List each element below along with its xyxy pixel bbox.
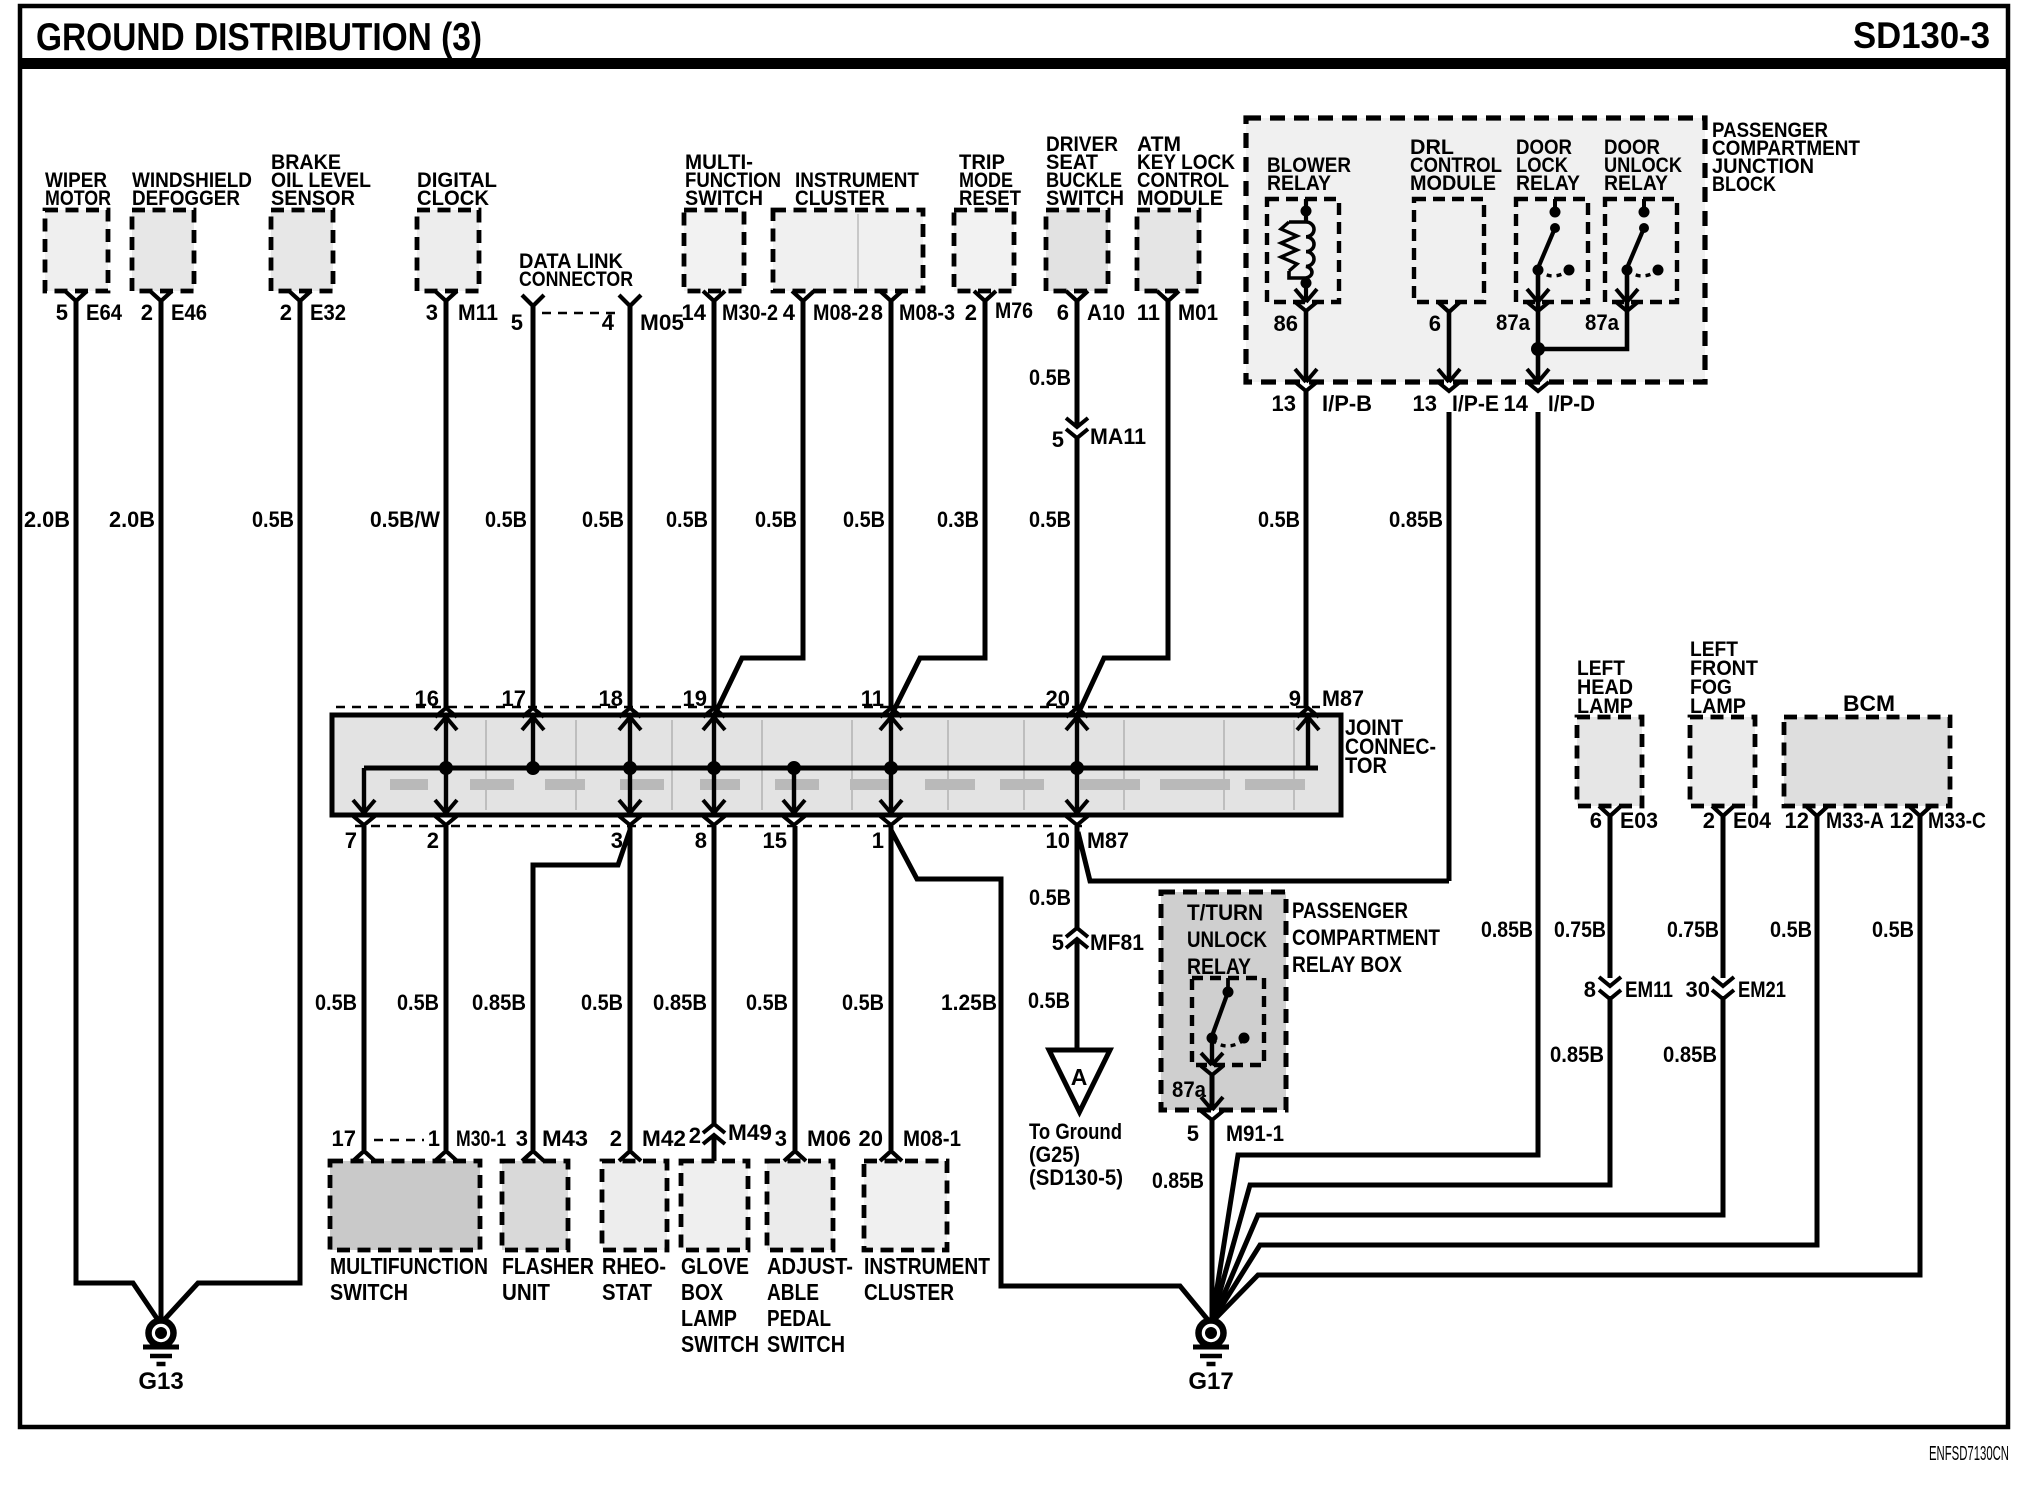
data link connector symbol pins 5 and 4 M05 — [522, 295, 544, 306]
joint connector bus wire — [364, 766, 1318, 771]
brake oil level sensor connector pin 2 E32 — [289, 291, 311, 301]
svg-text:18: 18 — [599, 686, 623, 711]
svg-text:M87: M87 — [1322, 686, 1364, 711]
svg-text:STAT: STAT — [602, 1279, 652, 1305]
t/turn unlock relay pin 87a exit — [1210, 1038, 1214, 1065]
svg-text:LAMP: LAMP — [1690, 695, 1746, 718]
svg-text:SENSOR: SENSOR — [271, 187, 355, 210]
joint connector bottom pin 2 — [444, 768, 448, 815]
instrument cluster bottom box — [864, 1161, 947, 1250]
svg-text:2: 2 — [689, 1123, 701, 1148]
svg-text:PASSENGER: PASSENGER — [1292, 898, 1408, 923]
wire pin 15 to adjustable pedal switch M06 — [793, 826, 798, 1150]
svg-text:TOR: TOR — [1345, 753, 1387, 778]
instrument cluster connector pin 4 M08-2 — [792, 291, 814, 301]
wire t/turn relay to relay box edge — [1210, 1075, 1215, 1110]
svg-text:BOX: BOX — [681, 1279, 724, 1305]
svg-text:0.85B: 0.85B — [1152, 1168, 1204, 1193]
brake oil level sensor box — [271, 210, 333, 291]
blower relay pin 86 exit arrow — [1295, 289, 1306, 302]
digital clock box — [417, 210, 479, 291]
svg-text:3: 3 — [775, 1126, 787, 1151]
wiper motor connector pin 5 E64 — [65, 291, 87, 301]
wire M33-A to ground G17 — [1213, 816, 1817, 1320]
svg-text:DEFOGGER: DEFOGGER — [132, 187, 240, 210]
svg-text:PEDAL: PEDAL — [767, 1305, 831, 1331]
svg-text:20: 20 — [1046, 686, 1070, 711]
svg-text:0.5B: 0.5B — [582, 507, 624, 532]
svg-text:E64: E64 — [86, 300, 123, 325]
svg-text:MULTIFUNCTION: MULTIFUNCTION — [330, 1253, 488, 1279]
svg-text:M76: M76 — [995, 298, 1033, 323]
svg-text:RELAY: RELAY — [1516, 172, 1580, 195]
junction block exit arrow 14 I/P-D — [1527, 369, 1538, 382]
flasher unit box — [502, 1161, 568, 1250]
svg-text:M87: M87 — [1087, 828, 1129, 853]
wire blower relay to junction block edge — [1304, 311, 1309, 382]
svg-text:0.5B: 0.5B — [252, 507, 294, 532]
inline connector 8 EM11 — [1606, 978, 1615, 996]
svg-text:SWITCH: SWITCH — [1046, 187, 1124, 210]
svg-text:A10: A10 — [1087, 300, 1125, 325]
svg-text:G17: G17 — [1188, 1368, 1233, 1395]
left front fog lamp box — [1690, 717, 1755, 806]
svg-text:MF81: MF81 — [1090, 930, 1144, 955]
adjustable pedal switch box — [767, 1161, 833, 1250]
rheostat pin 2 M42 — [619, 1151, 641, 1161]
svg-text:SWITCH: SWITCH — [330, 1279, 408, 1305]
svg-text:0.3B: 0.3B — [937, 507, 979, 532]
svg-text:10: 10 — [1046, 828, 1070, 853]
digital clock connector pin 3 M11 — [435, 291, 457, 301]
svg-text:2: 2 — [280, 300, 292, 325]
svg-text:14: 14 — [682, 300, 707, 325]
svg-text:M05: M05 — [640, 310, 684, 335]
svg-text:RESET: RESET — [959, 187, 1021, 210]
svg-text:INSTRUMENT: INSTRUMENT — [864, 1253, 990, 1279]
svg-text:2: 2 — [427, 828, 439, 853]
door unlock relay switch — [1642, 199, 1646, 212]
svg-text:M49: M49 — [728, 1120, 772, 1145]
joint connector top pin 19 — [712, 715, 716, 768]
svg-text:0.5B: 0.5B — [1029, 885, 1071, 910]
joint connector bottom pin 1 — [889, 768, 893, 815]
svg-text:6: 6 — [1057, 300, 1069, 325]
wire E04 to ground G17 — [1213, 816, 1723, 1320]
joint connector bottom pin 8 — [712, 768, 716, 815]
svg-text:M01: M01 — [1178, 300, 1218, 325]
svg-text:UNIT: UNIT — [502, 1279, 550, 1305]
passenger compartment junction block box — [1246, 118, 1705, 382]
BCM pin 12 M33-C — [1909, 806, 1931, 816]
svg-text:20: 20 — [859, 1126, 883, 1151]
svg-text:0.5B: 0.5B — [842, 990, 884, 1015]
svg-text:30: 30 — [1686, 977, 1710, 1002]
svg-text:A: A — [1071, 1064, 1088, 1090]
svg-text:CLOCK: CLOCK — [417, 187, 489, 210]
svg-text:M30-2: M30-2 — [722, 300, 778, 325]
svg-text:EM21: EM21 — [1738, 977, 1786, 1002]
wire I/P-E down from junction block — [1447, 412, 1452, 881]
glove box lamp switch box — [681, 1161, 748, 1250]
inline connector 5 MA11 — [1072, 426, 1082, 438]
svg-text:5: 5 — [511, 310, 523, 335]
svg-text:RELAY: RELAY — [1187, 954, 1251, 979]
svg-text:11: 11 — [1137, 300, 1160, 325]
inline connector 5 MF81 — [1072, 929, 1082, 941]
svg-text:3: 3 — [426, 300, 438, 325]
svg-text:6: 6 — [1590, 808, 1602, 833]
joint connector bottom pin 7 — [362, 768, 366, 815]
joint connector top pin 18 — [628, 715, 632, 768]
joint connector top pin 16 — [444, 715, 448, 768]
wiper motor box — [45, 210, 108, 291]
svg-text:ADJUST-: ADJUST- — [767, 1253, 853, 1279]
svg-text:0.5B: 0.5B — [397, 990, 439, 1015]
joint connector box — [332, 715, 1341, 815]
svg-text:E32: E32 — [310, 300, 346, 325]
rheostat box — [602, 1161, 667, 1250]
door unlock relay box — [1605, 199, 1677, 302]
svg-text:0.85B: 0.85B — [653, 990, 707, 1015]
svg-text:19: 19 — [683, 686, 707, 711]
svg-text:5: 5 — [1187, 1121, 1199, 1146]
svg-text:CONNECTOR: CONNECTOR — [519, 268, 633, 291]
left front fog lamp pin 2 E04 — [1712, 806, 1734, 816]
svg-text:5: 5 — [56, 300, 68, 325]
wire pin 1 to instrument cluster M08-1 — [889, 826, 894, 1150]
joint connector top pin 17 — [531, 715, 535, 768]
svg-text:14: 14 — [1504, 391, 1529, 416]
wire M30-2 to joint connector pin 19 — [712, 301, 717, 708]
svg-text:86: 86 — [1274, 311, 1298, 336]
wire M33-C to ground G17 — [1214, 816, 1920, 1320]
wire M11 to joint connector pin 16 — [444, 301, 449, 708]
joint connector bottom pin 3 — [628, 768, 632, 815]
svg-text:12: 12 — [1890, 808, 1914, 833]
svg-text:(G25): (G25) — [1029, 1142, 1080, 1167]
svg-text:4: 4 — [783, 300, 796, 325]
svg-text:RELAY: RELAY — [1267, 172, 1331, 195]
svg-text:M33-A: M33-A — [1826, 808, 1884, 833]
relay box exit arrow 5 M91-1 — [1201, 1097, 1212, 1110]
wire M76 jog to joint connector pin 11 — [891, 301, 985, 716]
svg-text:17: 17 — [502, 686, 526, 711]
off-page triangle A to ground G25 — [1049, 1050, 1110, 1112]
svg-text:ABLE: ABLE — [767, 1279, 819, 1305]
svg-text:SWITCH: SWITCH — [685, 187, 763, 210]
svg-text:8: 8 — [871, 300, 883, 325]
svg-text:0.5B: 0.5B — [746, 990, 788, 1015]
svg-text:8: 8 — [695, 828, 707, 853]
svg-text:0.85B: 0.85B — [1550, 1042, 1604, 1067]
wire pin 8 to glove box lamp switch M49 — [712, 826, 717, 1161]
joint connector bottom dashed line — [355, 825, 1082, 828]
svg-text:9: 9 — [1289, 686, 1301, 711]
wire M01 jog to joint connector pin 20 — [1077, 301, 1168, 716]
wire pin 1 jog 1.25B to ground G17 — [891, 830, 1208, 1320]
instrument cluster box — [773, 210, 923, 291]
svg-text:0.75B: 0.75B — [1667, 917, 1719, 942]
svg-text:RELAY: RELAY — [1604, 172, 1668, 195]
svg-text:6: 6 — [1429, 311, 1441, 336]
driver seat buckle switch box — [1046, 210, 1108, 291]
svg-text:FLASHER: FLASHER — [502, 1253, 594, 1279]
svg-text:0.5B/W: 0.5B/W — [370, 507, 440, 532]
wire E32 to G13 — [164, 301, 300, 1320]
driver seat buckle switch connector pin 6 A10 — [1066, 291, 1088, 301]
ground G17 — [1199, 1321, 1224, 1346]
svg-text:UNLOCK: UNLOCK — [1187, 927, 1267, 952]
multifunction switch pin 17 — [353, 1151, 375, 1161]
svg-text:87a: 87a — [1496, 310, 1531, 335]
wire E64 to G13 — [76, 301, 158, 1320]
svg-text:0.5B: 0.5B — [666, 507, 708, 532]
svg-text:E04: E04 — [1733, 808, 1772, 833]
left head lamp pin 6 E03 — [1599, 806, 1621, 816]
multi-function switch connector pin 14 M30-2 — [703, 291, 725, 301]
blower relay box — [1267, 199, 1339, 302]
wire M91-1 to ground G17 — [1210, 1120, 1215, 1320]
wire pin 3 jog to flasher unit M43 — [533, 830, 630, 1150]
joint connector bottom pin 10 — [1075, 768, 1079, 815]
wire M08-3 to joint connector pin 11 — [889, 301, 894, 708]
svg-text:5: 5 — [1052, 427, 1064, 452]
wire A10 to joint connector pin 20 — [1075, 301, 1080, 708]
svg-text:11: 11 — [861, 686, 884, 711]
svg-text:T/TURN: T/TURN — [1187, 900, 1263, 925]
svg-text:0.85B: 0.85B — [1389, 507, 1443, 532]
inline connector 2 M49 — [709, 1124, 719, 1136]
BCM box — [1784, 717, 1950, 806]
svg-text:G13: G13 — [138, 1368, 183, 1395]
svg-text:0.5B: 0.5B — [1028, 988, 1070, 1013]
svg-text:13: 13 — [1272, 391, 1296, 416]
svg-text:(SD130-5): (SD130-5) — [1029, 1165, 1123, 1190]
svg-text:E46: E46 — [171, 300, 207, 325]
svg-text:CLUSTER: CLUSTER — [864, 1279, 954, 1305]
svg-text:0.5B: 0.5B — [1258, 507, 1300, 532]
svg-text:MOTOR: MOTOR — [45, 187, 111, 210]
svg-text:0.85B: 0.85B — [472, 990, 526, 1015]
wire door unlock relay joins door lock wire — [1538, 270, 1627, 349]
drl control module pin 6 exit — [1438, 302, 1460, 312]
svg-text:MODULE: MODULE — [1137, 187, 1223, 210]
svg-text:ENFSD7130CN: ENFSD7130CN — [1929, 1443, 2009, 1465]
wire pin 2 to multifunction switch pin 1 — [444, 826, 449, 1150]
svg-text:2: 2 — [610, 1126, 622, 1151]
door lock relay switch — [1553, 199, 1557, 212]
drl control module box — [1414, 199, 1484, 302]
wire pin 10 jog to I/P-E wire — [1078, 832, 1449, 881]
trip mode reset box — [954, 210, 1014, 291]
multifunction switch pin 1 M30-1 — [435, 1151, 457, 1161]
door unlock relay pin 87a exit arrow — [1616, 289, 1627, 302]
svg-text:0.85B: 0.85B — [1663, 1042, 1717, 1067]
svg-text:16: 16 — [415, 686, 439, 711]
svg-text:BCM: BCM — [1843, 691, 1895, 716]
svg-text:SWITCH: SWITCH — [767, 1331, 845, 1357]
svg-text:0.5B: 0.5B — [581, 990, 623, 1015]
svg-text:2: 2 — [141, 300, 153, 325]
wire door lock relay to junction block edge — [1536, 270, 1541, 382]
joint connector top pin 9 — [1306, 715, 1310, 768]
door lock relay box — [1516, 199, 1588, 302]
svg-text:M08-3: M08-3 — [899, 300, 955, 325]
svg-text:87a: 87a — [1585, 310, 1620, 335]
wire I/P-D to ground G17 — [1212, 412, 1538, 1320]
svg-text:0.5B: 0.5B — [1029, 365, 1071, 390]
svg-text:COMPARTMENT: COMPARTMENT — [1292, 925, 1440, 950]
wire pin 10 down to A triangle — [1075, 826, 1080, 1050]
svg-text:2.0B: 2.0B — [24, 507, 70, 532]
junction block exit arrow 13 I/P-E — [1438, 369, 1449, 382]
joint connector top pin 11 — [889, 715, 893, 768]
svg-text:2: 2 — [1703, 808, 1715, 833]
svg-text:4: 4 — [602, 310, 615, 335]
wire drl module to junction block edge — [1447, 312, 1452, 382]
svg-text:RELAY BOX: RELAY BOX — [1292, 952, 1402, 977]
svg-text:1: 1 — [428, 1126, 440, 1151]
svg-text:0.5B: 0.5B — [755, 507, 797, 532]
svg-text:0.5B: 0.5B — [485, 507, 527, 532]
joint connector dashed line top — [336, 706, 1320, 709]
svg-text:SD130-3: SD130-3 — [1853, 15, 1990, 56]
svg-text:MODULE: MODULE — [1410, 172, 1496, 195]
svg-text:LAMP: LAMP — [1577, 695, 1633, 718]
svg-text:EM11: EM11 — [1625, 977, 1673, 1002]
svg-text:M42: M42 — [642, 1126, 686, 1151]
svg-text:13: 13 — [1413, 391, 1437, 416]
inline connector 30 EM21 — [1719, 978, 1728, 996]
svg-text:3: 3 — [516, 1126, 528, 1151]
svg-text:GROUND DISTRIBUTION (3): GROUND DISTRIBUTION (3) — [36, 16, 482, 59]
instrument cluster pin 20 M08-1 — [880, 1151, 902, 1161]
svg-text:SWITCH: SWITCH — [681, 1331, 759, 1357]
left head lamp box — [1577, 717, 1642, 806]
windshield defogger box — [132, 210, 194, 291]
svg-text:M30-1: M30-1 — [456, 1126, 506, 1151]
svg-text:2.0B: 2.0B — [109, 507, 155, 532]
multifunction switch bottom dashed pin line — [374, 1139, 424, 1142]
BCM pin 12 M33-A — [1806, 806, 1828, 816]
flasher unit pin 3 M43 — [522, 1151, 544, 1161]
svg-text:I/P-E: I/P-E — [1452, 391, 1499, 416]
svg-text:0.75B: 0.75B — [1554, 917, 1606, 942]
svg-text:BLOCK: BLOCK — [1712, 173, 1776, 196]
multi-function switch box — [684, 210, 744, 291]
title bar — [20, 58, 2008, 69]
svg-text:1: 1 — [872, 828, 884, 853]
wire data link 5 to joint connector pin 17 — [531, 306, 536, 708]
svg-text:GLOVE: GLOVE — [681, 1253, 749, 1279]
adjustable pedal switch pin 3 M06 — [784, 1151, 806, 1161]
svg-text:M91-1: M91-1 — [1226, 1121, 1284, 1146]
trip mode reset connector pin 2 M76 — [974, 291, 996, 301]
svg-text:12: 12 — [1785, 808, 1809, 833]
svg-text:M33-C: M33-C — [1928, 808, 1986, 833]
instrument cluster connector pin 8 M08-3 — [880, 291, 902, 301]
svg-text:RHEO-: RHEO- — [602, 1253, 666, 1279]
wire pin 3 to rheostat M42 — [628, 826, 633, 1150]
svg-text:1.25B: 1.25B — [941, 990, 997, 1015]
windshield defogger connector pin 2 E46 — [150, 291, 172, 301]
wire I/P-B to joint connector pin 9 — [1304, 391, 1309, 708]
svg-text:7: 7 — [345, 828, 357, 853]
svg-text:To Ground: To Ground — [1029, 1119, 1122, 1144]
svg-text:LAMP: LAMP — [681, 1305, 737, 1331]
svg-text:E03: E03 — [1620, 808, 1658, 833]
svg-text:0.5B: 0.5B — [1872, 917, 1914, 942]
wire M05 to joint connector pin 18 — [628, 306, 633, 708]
t/turn unlock relay switch — [1226, 978, 1230, 992]
atm key lock control module connector pin 11 M01 — [1157, 291, 1179, 301]
joint connector bottom pin 15 — [792, 768, 796, 815]
junction block exit arrow 13 I/P-B — [1295, 369, 1306, 382]
svg-text:8: 8 — [1584, 977, 1596, 1002]
wire E03 to ground G17 — [1212, 816, 1610, 1320]
svg-text:0.5B: 0.5B — [315, 990, 357, 1015]
svg-text:17: 17 — [332, 1126, 356, 1151]
svg-text:M43: M43 — [542, 1126, 588, 1151]
svg-text:MA11: MA11 — [1090, 424, 1146, 449]
passenger compartment relay box — [1161, 892, 1286, 1110]
svg-text:0.5B: 0.5B — [1029, 507, 1071, 532]
multifunction switch box — [330, 1161, 480, 1250]
wire pin 7 to multifunction switch pin 17 — [362, 826, 367, 1150]
svg-text:0.5B: 0.5B — [1770, 917, 1812, 942]
svg-text:15: 15 — [763, 828, 787, 853]
joint connector top pin 20 — [1075, 715, 1079, 768]
svg-text:M08-2: M08-2 — [813, 300, 869, 325]
svg-text:M08-1: M08-1 — [903, 1126, 961, 1151]
svg-text:2: 2 — [965, 300, 977, 325]
junction node door lock/unlock — [1531, 342, 1545, 356]
door lock relay pin 87a exit arrow — [1527, 289, 1538, 302]
svg-text:M06: M06 — [807, 1126, 851, 1151]
ground G13 — [149, 1321, 174, 1346]
svg-text:I/P-B: I/P-B — [1322, 391, 1372, 416]
svg-text:0.85B: 0.85B — [1481, 917, 1533, 942]
svg-text:5: 5 — [1052, 930, 1064, 955]
svg-text:0.5B: 0.5B — [843, 507, 885, 532]
wire E46 to G13 — [159, 301, 164, 1320]
wire M08-2 jog to joint connector pin 19 — [714, 301, 803, 716]
atm key lock control module box — [1137, 210, 1199, 291]
svg-text:CLUSTER: CLUSTER — [795, 187, 885, 210]
svg-text:M11: M11 — [458, 300, 498, 325]
t/turn unlock relay inner box — [1192, 978, 1264, 1065]
svg-text:I/P-D: I/P-D — [1548, 391, 1595, 416]
blower relay coil and resistor — [1304, 199, 1308, 222]
